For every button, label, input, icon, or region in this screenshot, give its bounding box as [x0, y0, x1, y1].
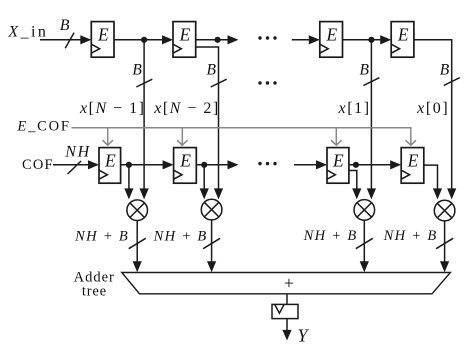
junction node C3 output: [353, 162, 359, 168]
register E1: [91, 22, 114, 58]
svg-text:NH + B: NH + B: [303, 228, 358, 244]
register E3: [320, 22, 343, 58]
output register: [272, 304, 298, 318]
bus slash on COF wire: [68, 161, 82, 174]
wire C3 stub down to multiplier M3: [349, 171, 362, 200]
wire C4 output down to multiplier M4: [424, 165, 442, 199]
E_COF enable stub arrow to register C1: [103, 128, 113, 145]
svg-text:B: B: [60, 17, 70, 34]
junction node x[1] tap: [368, 37, 374, 43]
bus slash on X_in wire: [65, 33, 74, 49]
svg-text:E: E: [325, 25, 337, 45]
multiplier M1: [127, 200, 148, 221]
bus slash on M2 output: [203, 238, 220, 248]
wire C1 to register C2: [121, 160, 174, 169]
bus slash on M3 output: [356, 238, 373, 248]
junction node x[N-1] tap: [141, 37, 147, 43]
register C1: [99, 148, 121, 184]
ellipsis row 2: [258, 162, 276, 165]
multiplier M4: [434, 200, 455, 221]
svg-text:COF: COF: [22, 157, 54, 173]
svg-text:+: +: [284, 273, 294, 293]
E_COF enable stub arrow to register C2: [177, 128, 187, 145]
svg-text:x[N − 1]: x[N − 1]: [79, 100, 145, 117]
register E4: [391, 22, 414, 58]
svg-text:E: E: [397, 25, 409, 45]
wire adder tree to output register: [286, 294, 288, 305]
junction node C1 output: [126, 162, 132, 168]
svg-text:NH + B: NH + B: [153, 229, 208, 245]
wire C2 output to ellipsis: [196, 160, 238, 169]
ellipsis row 1: [258, 36, 276, 39]
wire ellipsis to register C3: [294, 160, 327, 169]
bus slash on x[N-1] tap: [136, 79, 152, 87]
wire M4 to adder tree: [440, 221, 449, 272]
svg-text:E_COF: E_COF: [16, 119, 70, 135]
wire M1 to adder tree: [133, 221, 142, 273]
wire tap x[N-1] down to multiplier M1: [140, 40, 149, 200]
wire E3 to register E4: [343, 35, 392, 44]
E_COF enable stub arrow to register C3: [331, 128, 341, 145]
wire M2 to adder tree: [207, 220, 216, 272]
svg-text:E: E: [179, 25, 191, 45]
register C2: [174, 148, 197, 184]
bus slash on x[N-2] tap: [211, 79, 227, 87]
wire ellipsis to register E3: [292, 35, 320, 44]
wire E4 output to x[0] tap down to multiplier M4: [414, 40, 456, 200]
wire C1 junction down to multiplier M1: [124, 165, 133, 200]
wire output register to Y: [282, 319, 291, 341]
svg-text:B: B: [132, 61, 142, 78]
svg-text:x[N − 2]: x[N − 2]: [153, 100, 219, 117]
svg-text:B: B: [440, 61, 450, 78]
svg-text:x[0]: x[0]: [416, 100, 449, 117]
wire C2 junction down to multiplier M2: [200, 165, 209, 200]
wire COF to register C1: [53, 160, 99, 169]
wire M3 to adder tree: [360, 220, 369, 272]
svg-text:NH: NH: [64, 143, 91, 160]
multiplier M3: [354, 200, 375, 221]
junction node C2 output: [201, 162, 207, 168]
svg-text:X_in: X_in: [7, 23, 48, 40]
junction node x[N-2] tap: [215, 37, 221, 43]
register C4: [401, 148, 424, 184]
wire C3 to register C4: [349, 160, 401, 169]
ellipsis middle: [258, 81, 276, 84]
register C3: [327, 148, 349, 184]
wire x[N-2] tap from E2 down to multiplier M2: [196, 47, 223, 199]
bus slash on M4 output: [436, 238, 453, 248]
svg-text:E: E: [407, 151, 419, 171]
label Adder tree: [74, 269, 115, 299]
wire E2 output to ellipsis: [196, 35, 239, 44]
adder tree trapezoid: [122, 273, 451, 294]
svg-text:E: E: [332, 151, 344, 171]
multiplier M2: [201, 199, 222, 220]
svg-text:x[1]: x[1]: [338, 100, 371, 117]
bus slash on x[1] tap: [363, 78, 379, 86]
wire tap x[1] down to multiplier M3: [367, 40, 376, 200]
svg-text:NH + B: NH + B: [74, 229, 129, 245]
svg-text:B: B: [360, 61, 370, 78]
svg-text:tree: tree: [82, 283, 107, 299]
svg-text:NH + B: NH + B: [383, 228, 438, 244]
svg-text:B: B: [207, 61, 217, 78]
svg-text:E: E: [97, 25, 109, 45]
wire E1 to register E2: [114, 35, 173, 44]
svg-text:E: E: [179, 151, 191, 171]
svg-text:E: E: [104, 151, 116, 171]
bus slash on M1 output: [129, 238, 146, 248]
net E_COF gray line with end arrow into register C4: [72, 128, 417, 145]
register E2: [173, 22, 196, 58]
wire X_in to register E1: [40, 35, 91, 44]
bus slash on x[0] tap: [444, 78, 460, 86]
